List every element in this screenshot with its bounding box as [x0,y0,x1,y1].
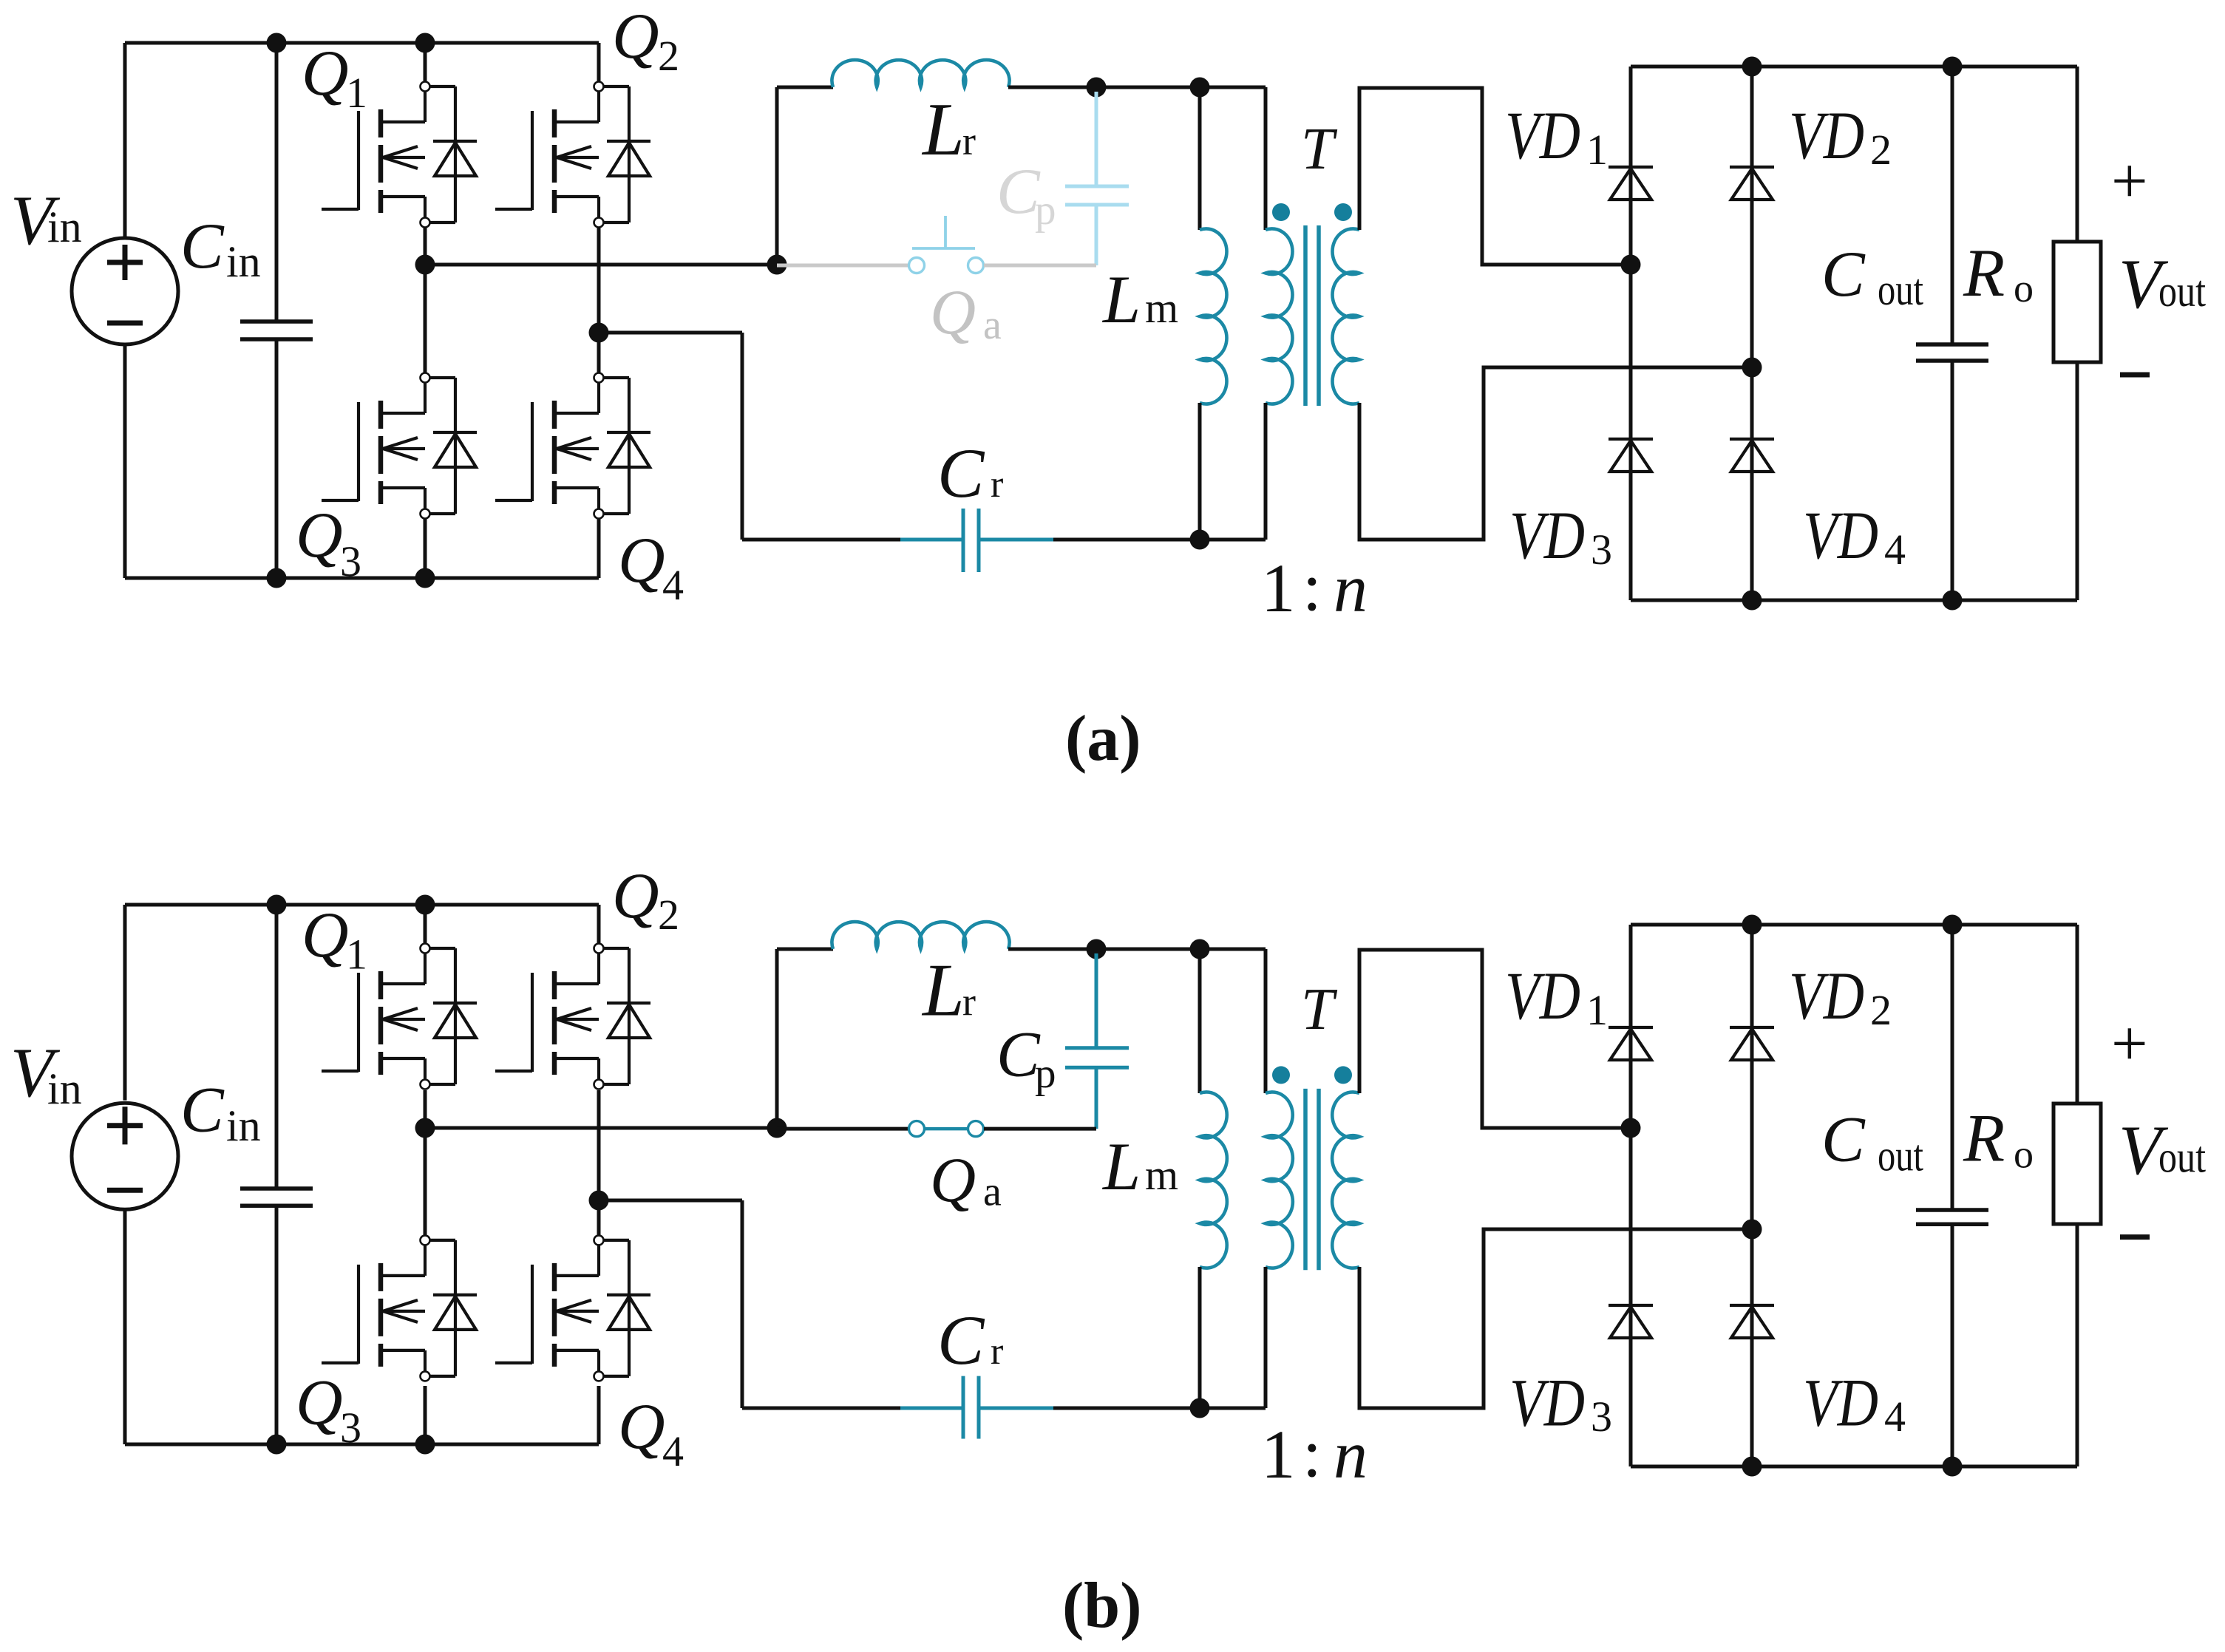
switch Qa [909,216,984,273]
wire node B to Cr [599,1199,742,1203]
wire bottom rail (input bridge) [125,1443,599,1447]
wire Q1 source to mid node [424,1090,427,1124]
node bottom rail / Cin [267,568,287,588]
wire to Lr [777,86,833,89]
node VD1/VD3 [1621,1118,1641,1138]
wire node A to switch Qa [777,1127,908,1131]
svg-text:o: o [2014,266,2034,310]
svg-text:2: 2 [658,32,679,80]
transistor Q1 [322,944,477,1090]
wire VD4 leg [1750,1229,1754,1466]
svg-text:m: m [1145,1151,1178,1199]
node tank input [767,255,787,275]
wire Q2 source to mid node [597,1090,601,1196]
node top rail / VD2 [1742,915,1762,935]
wire top rail (input bridge) [125,41,599,45]
transformer T primary polarity dot [1272,1066,1290,1084]
svg-text:VD: VD [1803,1365,1878,1441]
diode VD4 [1730,439,1774,472]
wire Cr rail left [742,538,900,542]
svg-text:out: out [2158,1133,2206,1182]
svg-text:L: L [921,88,965,171]
svg-text:VD: VD [1505,98,1580,173]
svg-text:4: 4 [1884,526,1906,574]
svg-text:L: L [1101,1129,1141,1204]
svg-text:1: 1 [346,69,367,117]
node VD2/VD4 [1742,358,1762,378]
svg-text::: : [1302,1415,1322,1492]
svg-text:in: in [226,1101,261,1150]
wire node A to tank input [425,1126,777,1130]
svg-text:in: in [47,203,82,251]
node top rail / Q1 leg [415,895,435,915]
svg-text:a: a [983,302,1002,348]
diode VD1 [1609,1027,1653,1060]
svg-text:2: 2 [1870,986,1892,1034]
wire VD1 leg [1629,67,1633,265]
wire VD2 leg [1750,67,1754,367]
diode VD2 [1730,167,1774,200]
svg-text:4: 4 [1884,1393,1906,1441]
node top rail / Q1 leg [415,33,435,53]
wire below Vin [123,1210,127,1444]
wire VD1 leg [1629,925,1633,1128]
wire left side of Vin [123,905,127,1101]
wire bottom rail (input bridge) [125,577,599,580]
svg-text:VD: VD [1509,1365,1585,1441]
transformer T secondary polarity dot [1334,1066,1352,1084]
transformer T secondary polarity dot [1334,203,1352,221]
svg-text:(a): (a) [1065,703,1141,775]
transformer T primary lead bottom [1264,1267,1268,1408]
node top rail / Cout [1943,57,1963,77]
wire right rail bottom [2076,362,2079,600]
transistor Q4 [495,1235,650,1381]
svg-text:T: T [1301,977,1338,1042]
svg-text:3: 3 [1591,526,1612,574]
wire secondary top [1359,88,1631,265]
node bottom rail / VD4 [1742,1457,1762,1477]
svg-text:C: C [996,1019,1041,1090]
wire rectifier top rail [1631,923,2077,927]
node Cr rail / Lm bottom [1190,1398,1210,1418]
transformer T primary lead bottom [1264,403,1268,540]
wire Q2 source to mid node [597,227,601,328]
wire Q2 drain [597,43,601,82]
svg-text:VD: VD [1505,958,1580,1033]
svg-text:+: + [2111,1008,2148,1080]
svg-text:C: C [996,156,1041,228]
wire secondary bottom [1359,367,1752,540]
node Cr rail / Lm bottom [1190,530,1210,550]
svg-text:C: C [937,1301,985,1379]
svg-text:1: 1 [1586,986,1608,1034]
svg-text:VD: VD [1509,497,1585,573]
node bottom rail / Cout [1943,1457,1963,1477]
transistor Q1 [322,82,477,228]
svg-text:m: m [1145,284,1178,332]
transformer T secondary winding [1332,228,1359,404]
wire Q1 drain [424,905,427,943]
wire below Vin [123,344,127,578]
wire Q1 source to mid node [424,227,427,260]
transformer T primary lead top [1264,87,1268,230]
wire switch Qa to Cp bottom [984,1127,1096,1131]
svg-text:3: 3 [1591,1393,1612,1441]
transistor Q2 [495,82,650,228]
wire VD3 leg [1629,1128,1633,1466]
node Cp branch top [1087,939,1107,959]
svg-text:Q: Q [618,1391,665,1463]
svg-text:T: T [1301,117,1338,182]
svg-text:1: 1 [1586,126,1608,174]
wire VD4 leg [1750,367,1754,600]
svg-text:Q: Q [618,525,665,596]
resistor Ro [2054,242,2101,362]
wire tank input rise [775,949,779,1128]
svg-text:R: R [1963,235,2005,310]
transformer T secondary winding [1332,1092,1359,1268]
svg-text:p: p [1035,187,1056,234]
node A (left leg midpoint) [415,255,435,275]
node bottom rail / Cout [1943,591,1963,611]
capacitor Cout [1916,67,1988,600]
svg-text:in: in [226,237,261,286]
capacitor Cp [1065,92,1129,265]
svg-text:L: L [1101,262,1141,337]
node A (left leg midpoint) [415,1118,435,1138]
svg-text:2: 2 [1870,126,1892,174]
svg-text:a: a [983,1169,1002,1215]
svg-text::: : [1302,549,1322,625]
diode VD3 [1609,1305,1653,1338]
diode VD3 [1609,439,1653,472]
wire Lr to transformer top [1008,948,1266,951]
node bottom rail / Q3 [415,1435,435,1455]
wire Q4 drain [597,337,601,373]
svg-text:Q: Q [296,500,343,571]
svg-text:3: 3 [340,537,361,585]
wire Q4 source [597,518,601,578]
svg-text:VD: VD [1789,98,1864,173]
svg-text:1: 1 [1261,551,1296,627]
diode VD1 [1609,167,1653,200]
transistor Q4 [495,373,650,519]
wire secondary top [1359,950,1631,1128]
svg-text:r: r [991,463,1003,506]
wire Lr to transformer top [1008,86,1266,89]
transformer T core [1305,1089,1319,1270]
svg-text:p: p [1035,1050,1056,1097]
wire to Lr [777,948,833,951]
wire right rail bottom [2076,1226,2079,1466]
wire rectifier bottom rail [1631,599,2077,602]
svg-text:Q: Q [296,1367,343,1439]
node Lm top [1190,939,1210,959]
wire rectifier bottom rail [1631,1465,2077,1469]
capacitor Cr [900,1376,1053,1439]
capacitor Cin [240,43,313,578]
transformer T primary winding [1266,1092,1293,1268]
svg-text:n: n [1334,1417,1368,1492]
label - (output polarity) [2120,373,2150,378]
wire Q3 drain [424,269,427,373]
svg-text:+: + [2111,146,2148,217]
svg-text:r: r [991,1330,1003,1373]
svg-text:out: out [1878,1132,1923,1180]
transistor Q3 [322,1235,477,1381]
switch Qa [909,1121,984,1137]
svg-text:Q: Q [302,38,349,109]
wire Cr to node [1053,538,1266,542]
node VD1/VD3 [1621,255,1641,275]
capacitor Cout [1916,925,1988,1466]
node bottom rail / VD4 [1742,591,1762,611]
svg-text:C: C [937,434,985,512]
wire down to Cr rail [741,1200,744,1408]
svg-text:3: 3 [340,1404,361,1452]
svg-text:Q: Q [302,900,349,971]
node top rail / Cin [267,895,287,915]
svg-text:out: out [1878,265,1923,314]
wire Cr rail left [742,1407,900,1410]
wire node A to tank input [425,263,777,267]
capacitor Cr [900,509,1053,572]
node bottom rail / Cin [267,1435,287,1455]
svg-text:C: C [180,211,225,282]
source Vin [72,1103,178,1209]
svg-text:2: 2 [658,891,679,939]
svg-text:Q: Q [612,860,659,932]
svg-text:Q: Q [930,1144,976,1215]
svg-text:R: R [1963,1101,2005,1176]
transformer T core [1305,225,1319,406]
wire Cr to node [1053,1407,1266,1410]
node bottom rail / Q3 [415,568,435,588]
node B (right leg midpoint) [589,1191,609,1211]
node Lm top [1190,78,1210,98]
resistor Ro [2054,1104,2101,1224]
inductor Lr [832,922,1009,949]
svg-text:1: 1 [1261,1417,1296,1493]
wire tank input rise [775,87,779,265]
diode VD4 [1730,1305,1774,1338]
node B (right leg midpoint) [589,323,609,343]
wire Q1 drain [424,43,427,82]
svg-text:Q: Q [612,1,659,72]
wire Q2 drain [597,905,601,943]
wire rectifier top rail [1631,65,2077,69]
wire Lm bottom [1198,1267,1202,1408]
node top rail / VD2 [1742,57,1762,77]
inductor Lr [832,60,1009,87]
wire Q3 source [424,518,427,578]
node VD2/VD4 [1742,1220,1762,1240]
svg-text:Q: Q [930,276,976,347]
wire top rail (input bridge) [125,903,599,907]
wire node B to Cr [599,331,742,335]
node top rail / Cout [1943,915,1963,935]
wire Lm top [1198,87,1202,230]
svg-text:in: in [47,1064,82,1113]
wire VD2 leg [1750,925,1754,1229]
source Vin [72,238,178,344]
wire Q4 drain [597,1204,601,1236]
wire Q4 source [597,1386,601,1444]
svg-text:VD: VD [1789,958,1864,1033]
svg-text:VD: VD [1803,497,1878,573]
diode VD2 [1730,1027,1774,1060]
svg-text:C: C [1821,239,1866,310]
wire secondary bottom [1359,1229,1752,1408]
svg-text:C: C [1821,1104,1866,1176]
transformer T primary polarity dot [1272,203,1290,221]
svg-text:n: n [1334,551,1368,626]
wire down to Cr rail [741,333,744,540]
svg-text:L: L [921,948,965,1032]
svg-text:(b): (b) [1062,1570,1142,1642]
transformer T primary lead top [1264,949,1268,1093]
wire Lm top [1198,949,1202,1093]
svg-text:1: 1 [346,931,367,979]
label - (output polarity) [2120,1234,2150,1240]
wire Q3 source [424,1386,427,1444]
inductor Lm [1200,228,1227,404]
wire right rail top [2076,925,2079,1104]
svg-text:4: 4 [662,561,684,609]
wire Q3 drain [424,1132,427,1235]
svg-text:4: 4 [662,1427,684,1475]
wire switch Qa to Cp bottom [984,264,1096,268]
wire Lm bottom [1198,403,1202,540]
wire VD3 leg [1629,265,1633,600]
wire node A to switch Qa [777,264,908,268]
inductor Lm [1200,1092,1227,1268]
svg-text:r: r [962,979,976,1024]
node tank input [767,1118,787,1138]
wire left side of Vin [123,43,127,238]
svg-text:r: r [962,119,976,163]
capacitor Cin [240,905,313,1444]
node top rail / Cin [267,33,287,53]
wire right rail top [2076,67,2079,242]
transistor Q2 [495,944,650,1090]
svg-text:C: C [180,1074,225,1146]
node Cp branch top [1087,78,1107,98]
capacitor Cp [1065,954,1129,1129]
transistor Q3 [322,373,477,519]
transformer T primary winding [1266,228,1293,404]
svg-text:o: o [2014,1132,2034,1176]
svg-text:out: out [2158,267,2206,316]
